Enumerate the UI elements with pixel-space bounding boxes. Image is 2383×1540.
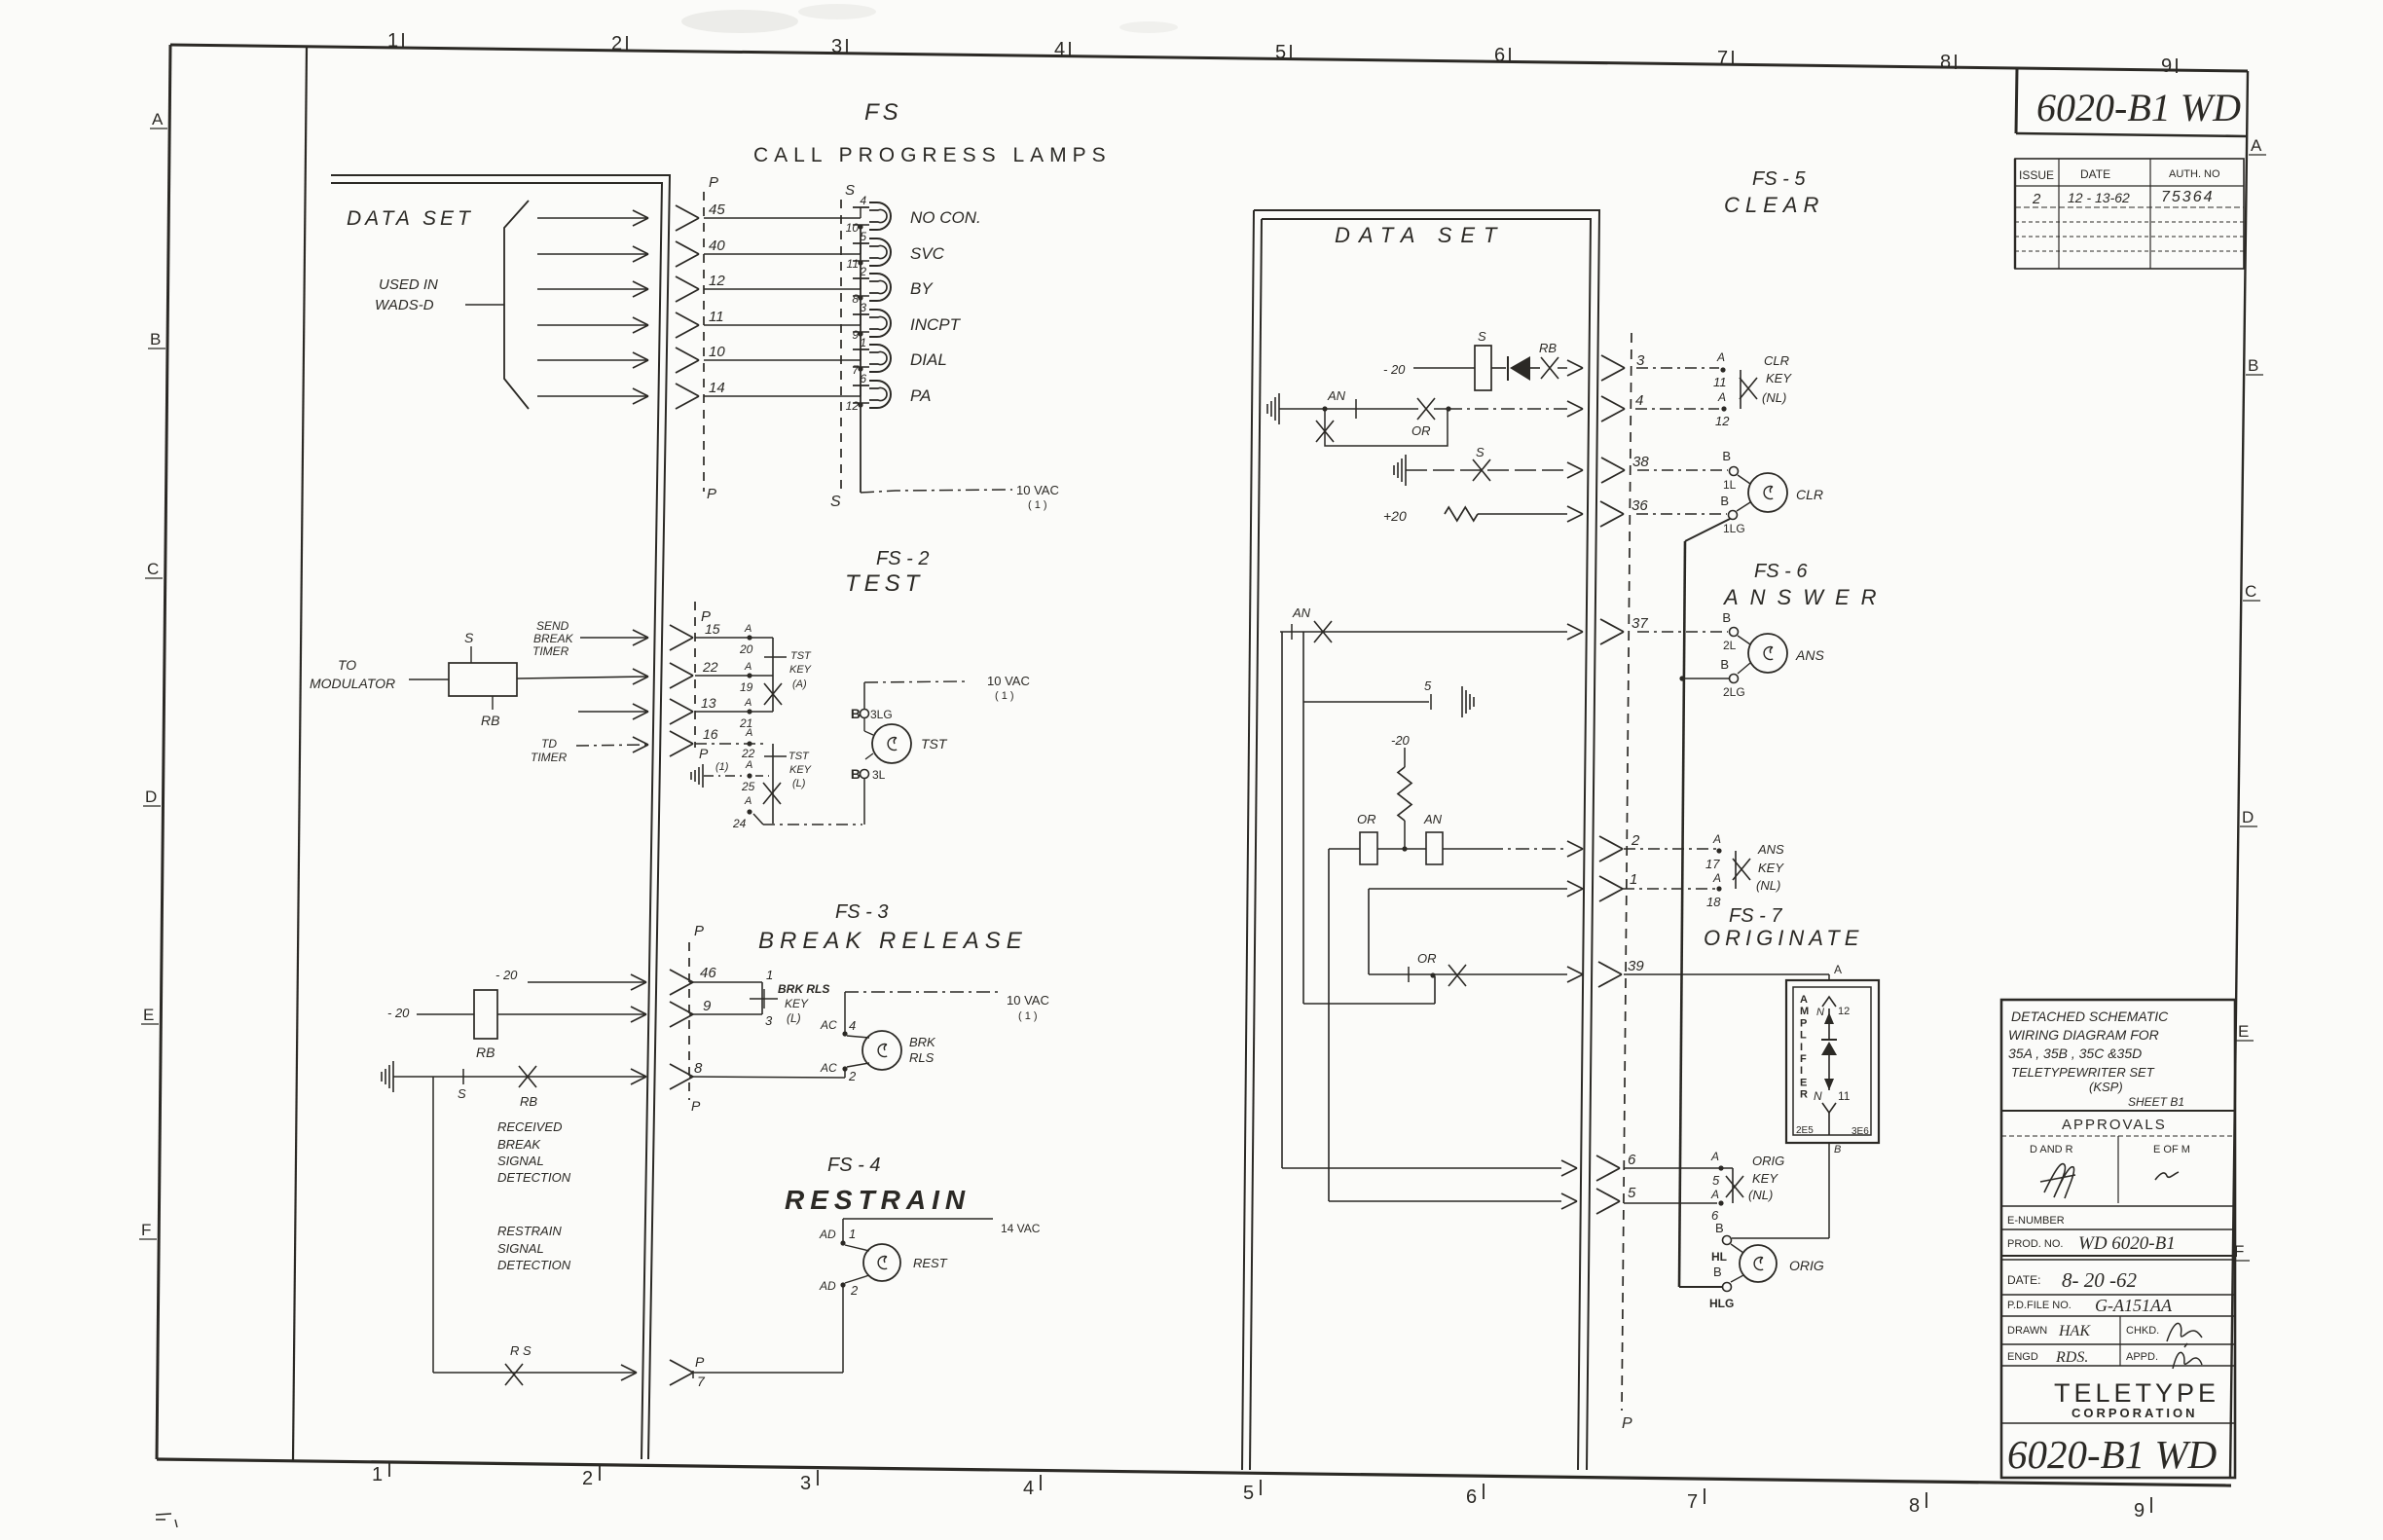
svg-text:AD: AD — [819, 1228, 836, 1241]
svg-text:SIGNAL: SIGNAL — [497, 1154, 544, 1168]
svg-text:FS - 5: FS - 5 — [1752, 168, 1806, 190]
svg-text:(L): (L) — [792, 778, 806, 789]
svg-text:4: 4 — [1023, 1478, 1034, 1499]
svg-text:CORPORATION: CORPORATION — [2071, 1406, 2198, 1420]
amplifier output chevron 11 — [1822, 1103, 1836, 1113]
svg-text:RB: RB — [476, 1045, 495, 1060]
svg-text:B: B — [1722, 449, 1731, 463]
svg-text:B: B — [1720, 494, 1729, 508]
middle DATA SET box inner — [1262, 219, 1591, 1470]
svg-text:5: 5 — [1243, 1483, 1254, 1504]
svg-text:RECEIVED: RECEIVED — [497, 1119, 562, 1134]
svg-text:4: 4 — [849, 1018, 856, 1033]
svg-text:B: B — [1713, 1265, 1722, 1279]
FS-3 connector chevrons — [670, 970, 693, 995]
ground row 5 — [1303, 701, 1429, 703]
svg-text:D AND R: D AND R — [2030, 1144, 2073, 1155]
svg-text:9: 9 — [703, 998, 712, 1014]
svg-text:CLR: CLR — [1764, 353, 1789, 368]
row 39 wire to amplifier — [1624, 973, 1829, 975]
svg-text:40: 40 — [709, 238, 725, 254]
S detector box — [1475, 346, 1491, 390]
svg-text:MODULATOR: MODULATOR — [310, 676, 395, 691]
svg-text:3: 3 — [831, 36, 842, 57]
pin 38 chevron — [1601, 458, 1625, 483]
left DATA SET box inner line — [331, 183, 662, 1459]
middle dashed pin line P — [1622, 333, 1631, 1411]
svg-text:11: 11 — [709, 309, 724, 325]
amplifier wire with down arrow — [1828, 1055, 1830, 1090]
svg-text:AD: AD — [819, 1279, 836, 1293]
svg-text:10 VAC: 10 VAC — [1016, 483, 1059, 497]
BRK RLS lamp — [847, 1036, 869, 1038]
svg-text:E: E — [1800, 1077, 1807, 1088]
svg-text:1: 1 — [849, 1227, 856, 1241]
svg-text:35A , 35B , 35C &35D: 35A , 35B , 35C &35D — [2008, 1045, 2142, 1061]
svg-text:SVC: SVC — [910, 244, 945, 263]
svg-text:R S: R S — [510, 1343, 532, 1358]
svg-text:HAK: HAK — [2058, 1323, 2091, 1339]
svg-text:14 VAC: 14 VAC — [1001, 1222, 1041, 1235]
svg-text:TD: TD — [541, 737, 557, 751]
svg-text:B: B — [150, 330, 161, 348]
svg-text:I: I — [1800, 1065, 1803, 1077]
ANS lamp — [1748, 634, 1787, 673]
border frame top — [170, 45, 2248, 71]
svg-text:A: A — [1710, 1188, 1719, 1201]
svg-text:(A): (A) — [792, 678, 807, 690]
wire HL to amplifier B — [1732, 1237, 1829, 1239]
svg-text:45: 45 — [709, 202, 725, 218]
diode CR — [1491, 367, 1506, 369]
svg-text:TST: TST — [788, 751, 810, 762]
pin 1 chevron — [1599, 876, 1623, 901]
svg-text:S: S — [1476, 445, 1485, 459]
svg-text:OR: OR — [1417, 951, 1437, 966]
ANS KEY bar and X — [1735, 851, 1737, 889]
svg-text:RB: RB — [1539, 341, 1557, 355]
svg-text:BREAK RELEASE: BREAK RELEASE — [758, 928, 1028, 954]
svg-text:4: 4 — [860, 194, 866, 207]
svg-text:3: 3 — [860, 301, 866, 314]
svg-text:3E6: 3E6 — [1851, 1126, 1869, 1137]
ORIG KEY bar and X — [1732, 1168, 1734, 1203]
svg-text:B: B — [851, 706, 861, 721]
svg-text:P: P — [694, 923, 704, 939]
svg-text:SIGNAL: SIGNAL — [497, 1241, 544, 1256]
svg-text:DETECTION: DETECTION — [497, 1170, 571, 1185]
svg-text:FS - 3: FS - 3 — [835, 901, 888, 923]
svg-text:A: A — [744, 661, 752, 673]
svg-text:1: 1 — [1630, 871, 1637, 888]
border frame left — [157, 45, 170, 1459]
svg-text:25: 25 — [741, 780, 755, 793]
svg-text:TIMER: TIMER — [532, 644, 569, 658]
svg-text:75364: 75364 — [2161, 189, 2215, 205]
svg-text:ANS: ANS — [1757, 842, 1784, 857]
svg-text:A: A — [1710, 1150, 1719, 1163]
svg-text:(NL): (NL) — [1748, 1188, 1773, 1202]
amplifier diode — [1821, 1039, 1837, 1041]
ground row 38 — [1393, 465, 1395, 475]
svg-text:P: P — [709, 174, 718, 191]
svg-text:S: S — [458, 1086, 466, 1101]
lower title block outline — [2001, 1000, 2235, 1478]
svg-text:24: 24 — [732, 817, 747, 830]
svg-text:BRK: BRK — [909, 1035, 936, 1049]
svg-text:E: E — [2238, 1022, 2249, 1041]
svg-text:37: 37 — [1631, 615, 1648, 632]
svg-text:5: 5 — [1424, 678, 1432, 693]
svg-text:38: 38 — [1632, 454, 1649, 470]
ground (1) FS-2 — [690, 772, 692, 780]
CLR lamp — [1748, 473, 1787, 512]
border frame right — [2230, 71, 2248, 1479]
svg-text:F: F — [1800, 1053, 1807, 1065]
wire to RB box — [409, 678, 449, 680]
svg-text:3: 3 — [1636, 352, 1645, 369]
pin 3 wire to CLR KEY — [1636, 367, 1719, 369]
svg-text:( 1 ): ( 1 ) — [995, 690, 1014, 702]
terminal B 3LG — [861, 710, 869, 718]
svg-text:2: 2 — [850, 1283, 859, 1298]
pin 39 chevron — [1598, 962, 1622, 987]
svg-text:2L: 2L — [1723, 639, 1737, 652]
CLR KEY bar and X — [1740, 370, 1741, 409]
wire 2LG to bus — [1682, 678, 1729, 679]
svg-text:A: A — [744, 697, 752, 709]
signature E of M — [2155, 1172, 2179, 1180]
svg-text:APPROVALS: APPROVALS — [2062, 1117, 2167, 1133]
send break timer arrow — [580, 637, 646, 639]
bus 2 vertical (row2 to pin5) — [1328, 849, 1330, 1201]
svg-text:OR: OR — [1411, 423, 1431, 438]
bus 4 vertical (row1 to row39) — [1368, 889, 1370, 974]
svg-text:FS: FS — [864, 99, 902, 126]
row 1 wire — [1369, 888, 1567, 890]
svg-text:TIMER: TIMER — [531, 751, 568, 764]
TST KEY (A) bar — [772, 638, 774, 712]
ORIG lamp — [1740, 1245, 1777, 1282]
TD timer arrow — [576, 745, 646, 746]
svg-text:RB: RB — [520, 1094, 537, 1109]
svg-text:E OF M: E OF M — [2153, 1144, 2190, 1155]
svg-text:4: 4 — [1054, 39, 1065, 60]
svg-text:BREAK: BREAK — [533, 632, 574, 645]
svg-text:AUTH. NO: AUTH. NO — [2169, 168, 2220, 180]
svg-text:RLS: RLS — [909, 1050, 935, 1065]
svg-text:(L): (L) — [787, 1011, 801, 1025]
svg-text:SHEET B1: SHEET B1 — [2128, 1095, 2184, 1109]
svg-text:DRAWN: DRAWN — [2007, 1325, 2047, 1337]
svg-text:46: 46 — [700, 965, 716, 981]
bus 3 vertical (to OR row) — [1302, 632, 1304, 1004]
terminal B 3L — [861, 770, 869, 779]
svg-text:15: 15 — [705, 621, 720, 637]
pin 2 chevron — [1599, 836, 1623, 862]
svg-text:APPD.: APPD. — [2126, 1351, 2158, 1363]
svg-text:RESTRAIN: RESTRAIN — [785, 1185, 971, 1215]
svg-text:ORIGINATE: ORIGINATE — [1704, 926, 1863, 950]
lamp bus vertical — [860, 227, 862, 493]
amplifier wire with up arrow — [1828, 1008, 1830, 1040]
junction to restrain row — [432, 1077, 434, 1373]
vertical bus heavy — [1679, 541, 1685, 1287]
svg-text:( 1 ): ( 1 ) — [1018, 1010, 1038, 1022]
svg-text:PA: PA — [910, 386, 931, 405]
svg-text:ORIG: ORIG — [1789, 1258, 1824, 1273]
svg-text:KEY: KEY — [785, 997, 809, 1010]
X below AN — [1316, 421, 1334, 442]
OR bypass loop — [1325, 411, 1448, 446]
svg-text:7: 7 — [1717, 48, 1728, 69]
svg-text:G-A151AA: G-A151AA — [2095, 1296, 2173, 1315]
row 4 wire out — [1448, 408, 1567, 410]
svg-text:10 VAC: 10 VAC — [987, 674, 1030, 688]
svg-text:P: P — [1622, 1415, 1632, 1432]
e-number row — [2001, 1205, 2235, 1207]
svg-text:P: P — [695, 1354, 705, 1370]
svg-text:AN: AN — [1327, 388, 1346, 403]
svg-text:KEY: KEY — [1758, 861, 1784, 875]
svg-text:KEY: KEY — [789, 764, 812, 776]
svg-text:A: A — [2251, 136, 2262, 155]
svg-text:1: 1 — [766, 968, 773, 982]
svg-text:8- 20 -62: 8- 20 -62 — [2062, 1268, 2137, 1292]
svg-text:OR: OR — [1357, 812, 1376, 826]
svg-text:WD 6020-B1: WD 6020-B1 — [2078, 1233, 2176, 1254]
svg-text:10 VAC: 10 VAC — [1007, 993, 1049, 1008]
svg-text:11: 11 — [847, 257, 859, 271]
svg-text:7: 7 — [697, 1374, 706, 1389]
svg-text:N: N — [1814, 1089, 1822, 1103]
svg-text:BRK RLS: BRK RLS — [778, 982, 829, 996]
svg-text:3L: 3L — [872, 768, 886, 782]
svg-text:CALL PROGRESS LAMPS: CALL PROGRESS LAMPS — [753, 144, 1112, 166]
svg-text:14: 14 — [709, 380, 725, 396]
svg-text:CHKD.: CHKD. — [2126, 1325, 2159, 1337]
svg-text:C: C — [147, 560, 159, 578]
svg-text:3: 3 — [800, 1473, 811, 1494]
wire HLG to bus — [1679, 1286, 1722, 1288]
svg-text:- 20: - 20 — [1383, 362, 1406, 377]
paper smudge top — [681, 10, 798, 33]
arrow row 13 — [578, 711, 646, 713]
svg-text:SEND: SEND — [536, 619, 569, 633]
TST lamp wiring top — [863, 682, 865, 710]
svg-text:6020-B1 WD: 6020-B1 WD — [2036, 86, 2241, 129]
left DATA SET box outer line — [331, 175, 670, 1459]
svg-text:FS - 7: FS - 7 — [1729, 905, 1782, 927]
svg-text:DETECTION: DETECTION — [497, 1258, 571, 1272]
svg-text:A: A — [1716, 350, 1725, 364]
svg-text:( 1 ): ( 1 ) — [1028, 499, 1047, 511]
svg-text:1: 1 — [860, 336, 866, 349]
svg-text:12: 12 — [709, 273, 725, 289]
svg-text:22: 22 — [702, 659, 718, 675]
svg-text:9: 9 — [852, 328, 859, 342]
svg-text:6: 6 — [1628, 1152, 1636, 1168]
svg-text:TELETYPEWRITER SET: TELETYPEWRITER SET — [2011, 1065, 2155, 1080]
svg-text:P: P — [1800, 1017, 1807, 1029]
svg-text:S: S — [464, 630, 474, 645]
TST KEY (L) bar — [772, 744, 774, 824]
OR bypass X — [1417, 398, 1435, 420]
svg-text:AC: AC — [820, 1018, 837, 1032]
top title box 6020-B1 WD — [2016, 68, 2017, 133]
amplifier box — [1786, 980, 1879, 1143]
svg-text:KEY: KEY — [1766, 371, 1792, 385]
pin 36 chevron — [1600, 501, 1624, 527]
svg-text:ANS: ANS — [1795, 647, 1824, 663]
connector dashed line P (lamps) — [703, 192, 705, 492]
amplifier input chevron 12 — [1822, 997, 1836, 1007]
svg-text:RB: RB — [481, 713, 499, 728]
svg-text:13: 13 — [701, 695, 716, 711]
svg-text:2: 2 — [2032, 191, 2041, 207]
svg-text:3: 3 — [765, 1013, 773, 1028]
svg-text:ANSWER: ANSWER — [1722, 585, 1888, 609]
svg-text:E-NUMBER: E-NUMBER — [2007, 1215, 2065, 1227]
svg-text:C: C — [2245, 582, 2256, 601]
svg-text:WIRING DIAGRAM FOR: WIRING DIAGRAM FOR — [2008, 1027, 2159, 1043]
svg-text:WADS-D: WADS-D — [375, 297, 434, 313]
issue table — [2015, 159, 2244, 269]
svg-text:CLEAR: CLEAR — [1724, 193, 1824, 217]
svg-text:RESTRAIN: RESTRAIN — [497, 1224, 562, 1238]
pin 6 chevron — [1282, 1167, 1561, 1169]
svg-text:M: M — [1800, 1006, 1809, 1017]
svg-text:P.D.FILE NO.: P.D.FILE NO. — [2007, 1300, 2071, 1311]
svg-text:A: A — [1834, 963, 1842, 976]
svg-text:-20: -20 — [1391, 733, 1411, 748]
pin 3 chevron — [1601, 355, 1625, 381]
svg-text:B: B — [1715, 1221, 1724, 1235]
svg-text:12: 12 — [1838, 1006, 1850, 1017]
svg-text:DIAL: DIAL — [910, 350, 947, 369]
dashed line S (lamps) — [840, 200, 842, 489]
send-break RB timer box — [449, 663, 517, 696]
pin 5 chevron — [1329, 1200, 1561, 1202]
stray mark bottom left — [156, 1514, 177, 1527]
svg-text:5: 5 — [1712, 1173, 1720, 1188]
svg-text:A: A — [745, 727, 752, 739]
svg-text:1LG: 1LG — [1723, 522, 1745, 535]
svg-text:6: 6 — [1466, 1486, 1477, 1508]
svg-text:DATA SET: DATA SET — [347, 207, 474, 230]
svg-text:9: 9 — [2134, 1500, 2145, 1522]
svg-text:NO CON.: NO CON. — [910, 208, 981, 227]
AN contact row 4 — [1322, 406, 1327, 411]
svg-text:22: 22 — [741, 747, 755, 760]
svg-text:ENGD: ENGD — [2007, 1351, 2038, 1363]
svg-text:TST: TST — [790, 650, 812, 662]
svg-text:2E5: 2E5 — [1796, 1125, 1814, 1136]
svg-text:5: 5 — [1628, 1185, 1636, 1201]
svg-text:HL: HL — [1711, 1250, 1727, 1264]
svg-text:L: L — [1800, 1030, 1807, 1042]
svg-text:N: N — [1816, 1007, 1824, 1018]
REST lamp — [863, 1244, 900, 1281]
svg-text:(NL): (NL) — [1756, 878, 1780, 893]
svg-text:FS - 2: FS - 2 — [876, 548, 929, 569]
pin 4 chevron — [1601, 396, 1625, 422]
bus 1 vertical (row37 to pin6) — [1281, 632, 1283, 1168]
svg-text:11: 11 — [1713, 375, 1727, 389]
svg-text:10: 10 — [846, 221, 860, 235]
svg-text:ORIG: ORIG — [1752, 1154, 1784, 1168]
amplifier output wire B — [1828, 1143, 1830, 1238]
lamp bus to 10VAC wire — [861, 490, 1012, 493]
svg-text:B: B — [1720, 657, 1729, 672]
svg-text:17: 17 — [1705, 857, 1720, 871]
svg-text:20: 20 — [739, 642, 753, 656]
svg-text:8: 8 — [1909, 1495, 1920, 1517]
svg-text:(NL): (NL) — [1762, 390, 1786, 405]
svg-text:USED IN: USED IN — [379, 276, 438, 293]
svg-text:HLG: HLG — [1709, 1297, 1734, 1310]
svg-text:6: 6 — [1494, 45, 1505, 66]
TST KEY (A) contacts — [747, 635, 752, 640]
svg-text:DATA SET: DATA SET — [1335, 223, 1506, 247]
svg-text:PROD. NO.: PROD. NO. — [2007, 1238, 2063, 1250]
svg-text:S: S — [1478, 329, 1486, 344]
svg-text:12: 12 — [846, 399, 860, 413]
restrain pin wire — [693, 1372, 843, 1374]
FS-3 dashed P line — [688, 942, 690, 1100]
svg-text:S: S — [830, 494, 841, 510]
svg-text:FS - 4: FS - 4 — [827, 1155, 880, 1176]
svg-text:DATE: DATE — [2080, 167, 2110, 181]
svg-text:E: E — [143, 1006, 154, 1024]
svg-text:- 20: - 20 — [495, 968, 518, 982]
svg-text:BREAK: BREAK — [497, 1137, 541, 1152]
svg-text:1L: 1L — [1723, 478, 1737, 492]
svg-text:P: P — [699, 746, 709, 761]
svg-text:A: A — [1712, 871, 1721, 885]
WADS-D brace — [504, 201, 529, 409]
wire RB to pin 9 — [497, 1013, 644, 1015]
svg-text:12: 12 — [1715, 414, 1730, 428]
bus wire from 1LG — [1685, 519, 1730, 541]
middle DATA SET box outer — [1254, 210, 1599, 1470]
svg-text:S: S — [845, 182, 855, 199]
svg-text:9: 9 — [2161, 55, 2172, 77]
svg-text:2: 2 — [611, 33, 622, 55]
svg-text:CLR: CLR — [1796, 487, 1823, 502]
svg-text:AN: AN — [1423, 812, 1443, 826]
svg-text:2: 2 — [1631, 832, 1640, 849]
svg-text:2: 2 — [859, 265, 866, 278]
svg-text:TEST: TEST — [845, 570, 924, 597]
svg-text:A: A — [744, 795, 752, 807]
pin 37 chevron — [1600, 619, 1624, 644]
svg-text:11: 11 — [1838, 1089, 1851, 1103]
svg-text:D: D — [145, 788, 157, 806]
svg-text:ISSUE: ISSUE — [2019, 168, 2054, 182]
svg-text:6: 6 — [860, 372, 866, 385]
svg-text:B: B — [2248, 356, 2258, 375]
svg-text:A: A — [744, 623, 752, 635]
svg-text:1: 1 — [372, 1464, 383, 1485]
svg-text:8: 8 — [694, 1060, 703, 1077]
svg-text:19: 19 — [740, 680, 753, 694]
svg-text:5: 5 — [860, 230, 866, 243]
TST KEY (L) contacts — [747, 741, 752, 746]
svg-text:I: I — [1800, 1042, 1803, 1053]
svg-text:16: 16 — [703, 726, 718, 742]
svg-text:(KSP): (KSP) — [2089, 1080, 2123, 1094]
